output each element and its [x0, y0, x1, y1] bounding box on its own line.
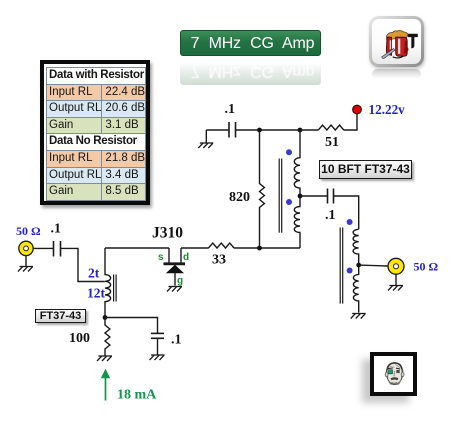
wire T1 junction to C2 — [105, 318, 158, 334]
wire R4 to supply — [344, 114, 357, 131]
ground C3 — [198, 130, 213, 148]
phasing dot T2 top — [286, 149, 292, 155]
ground gate — [167, 287, 182, 292]
title banner — [180, 30, 321, 56]
node top rail 820 — [257, 128, 262, 133]
10 BFT FT37-43 label box — [319, 160, 412, 179]
ground T3 bottom — [351, 314, 366, 319]
capacitor C3 .1 — [229, 122, 236, 138]
svg-text:2t: 2t — [88, 266, 100, 281]
transformer T1 winding — [105, 248, 111, 318]
svg-text:33: 33 — [212, 253, 226, 268]
svg-text:50 Ω: 50 Ω — [16, 224, 41, 238]
wire T2 top node to R4 — [300, 129, 318, 131]
svg-text:.1: .1 — [51, 222, 62, 237]
svg-text:d: d — [183, 252, 189, 263]
transformer T3 core — [340, 228, 343, 304]
svg-text:J310: J310 — [152, 225, 183, 242]
svg-text:.1: .1 — [171, 333, 182, 348]
phasing dot T3 top — [347, 219, 353, 225]
svg-text:s: s — [158, 252, 164, 263]
wire T2 tap to C4 — [300, 195, 328, 197]
transistor Q1 J310 — [164, 248, 186, 286]
resistor R3 33 — [209, 243, 235, 248]
data table — [40, 60, 150, 205]
ground input connector — [18, 256, 33, 272]
capacitor C4 .1 — [328, 189, 334, 204]
FT37-43 label box — [35, 309, 86, 323]
wire connector to C1 — [33, 247, 53, 249]
connector J1 input 50 ohm — [19, 241, 33, 255]
svg-text:100: 100 — [69, 331, 90, 346]
svg-text:51: 51 — [325, 135, 339, 150]
wire drain to R3 — [181, 247, 209, 249]
svg-text:820: 820 — [229, 190, 250, 205]
svg-text:g: g — [177, 276, 183, 287]
node T1 bottom junction — [103, 315, 108, 320]
svg-text:18 mA: 18 mA — [117, 388, 157, 403]
wire T1 top to JFET source — [105, 247, 169, 249]
face icon bottom right — [370, 352, 417, 396]
node 820 bottom — [257, 246, 262, 251]
resistor R4 51 — [318, 125, 344, 130]
supply node 12.22v red dot — [353, 105, 362, 114]
wire C3 to T2 top — [236, 129, 301, 131]
wire C4 to T3 — [334, 196, 359, 229]
transformer T2 core — [279, 159, 282, 233]
svg-text:12t: 12t — [87, 286, 106, 301]
node T2 tap — [298, 194, 303, 199]
capacitor C2 .1 bypass — [151, 333, 164, 338]
wire C1 to T1 tap — [61, 248, 105, 281]
logo art — [382, 30, 418, 58]
svg-text:50 Ω: 50 Ω — [414, 260, 439, 274]
connector J2 output 50 ohm — [388, 258, 404, 274]
phasing dot T2 tap — [286, 199, 292, 205]
ground output connector — [388, 274, 403, 290]
logo button top right — [369, 16, 424, 67]
title reflection — [180, 59, 321, 85]
svg-text:.1: .1 — [225, 102, 236, 117]
capacitor C1 .1 — [54, 241, 61, 257]
transformer T1 core — [114, 275, 117, 302]
node T3 tap — [356, 263, 361, 268]
phasing dot T3 tap — [347, 268, 353, 274]
ground R2 — [97, 352, 112, 361]
transformer T2 primary winding — [294, 130, 300, 248]
wire T3 tap to output connector — [359, 264, 388, 267]
resistor R2 100 vertical — [105, 318, 110, 353]
wire gnd to C3 — [206, 129, 229, 131]
transformer T3 winding — [353, 229, 359, 312]
current arrow 18 mA — [101, 369, 110, 401]
ground C2 — [150, 338, 165, 360]
node top rail T2 — [298, 128, 303, 133]
wire R3 to T2 bottom rail — [234, 247, 300, 249]
svg-text:12.22v: 12.22v — [369, 102, 406, 117]
resistor R1 820 vertical — [260, 130, 265, 248]
face art — [385, 363, 404, 385]
svg-text:.1: .1 — [325, 208, 336, 223]
